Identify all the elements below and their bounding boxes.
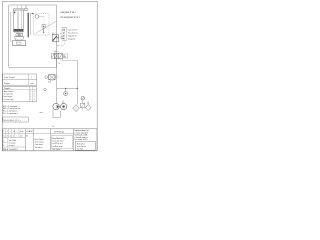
svg-text:1 3: 1 3 bbox=[58, 63, 61, 65]
filter diamond bbox=[73, 105, 79, 112]
svg-text:C rnar ruph: C rnar ruph bbox=[4, 98, 14, 101]
cylinder A1 piston bbox=[14, 29, 24, 31]
svg-text:1w r: 1w r bbox=[20, 136, 23, 138]
press ram bbox=[15, 37, 24, 41]
cylinder A1 barrel bbox=[13, 10, 23, 32]
svg-text:hm whs rw: hm whs rw bbox=[68, 33, 78, 35]
svg-text:W = 1 rqwrvwm t: W = 1 rqwrvwm t bbox=[3, 112, 18, 115]
svg-text:hwqy tw: hwqy tw bbox=[68, 37, 76, 40]
valve V1 spring bbox=[63, 54, 65, 58]
wire C right vertical bbox=[76, 60, 78, 104]
compressor circle bbox=[53, 103, 59, 109]
svg-text:WS-E 1 DuW41 1: WS-E 1 DuW41 1 bbox=[3, 149, 18, 151]
drain circle bbox=[44, 88, 47, 91]
svg-text:Bo n Pwlru t: Bo n Pwlru t bbox=[35, 138, 45, 141]
compressor base wire bbox=[53, 109, 60, 117]
rod coupling bbox=[16, 34, 23, 37]
svg-text:n w: n w bbox=[30, 83, 34, 85]
svg-text:4: 4 bbox=[7, 131, 8, 133]
svg-text:w rnwr t: w rnwr t bbox=[9, 144, 16, 147]
symbol strip box bbox=[3, 117, 28, 122]
workpiece box bbox=[13, 41, 26, 46]
junction bbox=[77, 88, 78, 89]
svg-text:4w2 1wr4w: 4w2 1wr4w bbox=[52, 149, 61, 151]
inset circle link bbox=[39, 15, 44, 17]
valve V1 left pilot bbox=[51, 54, 54, 58]
svg-text:OOA RC: OOA RC bbox=[26, 130, 33, 133]
svg-text:12k: 12k bbox=[48, 81, 51, 83]
lubricator diamond bbox=[85, 105, 91, 111]
wire D horizontal branch bbox=[57, 87, 78, 89]
valve V2 spring bbox=[55, 75, 56, 78]
wire from valve to cylinder port bbox=[25, 5, 27, 8]
title block h-lines bbox=[3, 132, 51, 134]
table 1 bbox=[3, 74, 37, 85]
inset inner valve sketch bbox=[42, 25, 46, 29]
gauge on branch D bbox=[65, 88, 67, 91]
svg-text:4 rwr wrw t: 4 rwr wrw t bbox=[35, 143, 44, 146]
svg-text:1: 1 bbox=[30, 99, 31, 101]
wire B valve to right bbox=[63, 59, 78, 61]
pilot circle right of S1 bbox=[61, 36, 63, 38]
svg-text:Brwd Anwhw 2 t: Brwd Anwhw 2 t bbox=[52, 137, 65, 140]
svg-text:w1: w1 bbox=[13, 131, 15, 133]
valve V2 roller bbox=[45, 76, 48, 79]
svg-text:W+O+W+1 | 1 1 +: W+O+W+1 | 1 1 + bbox=[4, 120, 22, 122]
machine right column bbox=[30, 13, 32, 35]
detail frame corner bbox=[57, 30, 65, 46]
svg-text:32: 32 bbox=[26, 135, 28, 137]
motor circle bbox=[60, 103, 66, 109]
valve V1 body bbox=[55, 53, 63, 58]
svg-text:Paqet: Paqet bbox=[4, 82, 10, 85]
svg-text:arm w 1h t: arm w 1h t bbox=[68, 29, 78, 32]
svg-text:Regeln: Regeln bbox=[4, 88, 10, 90]
svg-text:ewrywet 4 wr t: ewrywet 4 wr t bbox=[60, 11, 76, 14]
svg-text:1w rw4 w: 1w rw4 w bbox=[35, 147, 43, 149]
page border frame bbox=[2, 1, 97, 150]
inset detail box bbox=[34, 14, 50, 36]
table 2 bbox=[3, 86, 37, 101]
machine dark column bbox=[28, 13, 29, 37]
machine left column bbox=[10, 12, 12, 42]
svg-text:n: n bbox=[16, 131, 17, 133]
svg-text:r1: r1 bbox=[7, 136, 9, 138]
inset roller circle bbox=[35, 15, 39, 19]
cylinder A1 port block bbox=[14, 12, 15, 14]
title block right box bbox=[75, 142, 95, 151]
svg-text:DOPU25-A: DOPU25-A bbox=[54, 131, 64, 134]
inset leader diagonal bbox=[35, 21, 56, 34]
svg-text:1: 1 bbox=[34, 99, 35, 101]
svg-text:2: 2 bbox=[57, 45, 58, 47]
cylinder A1 bottom cap line bbox=[13, 31, 23, 33]
svg-text:Lrne 2 trpe t: Lrne 2 trpe t bbox=[4, 76, 16, 79]
pressure regulator bbox=[81, 103, 85, 108]
svg-text:Auxl Urour t: Auxl Urour t bbox=[4, 90, 14, 93]
gauge on regulator bbox=[81, 96, 85, 100]
svg-text:1w4rwt rwqrt: 1w4rwt rwqrt bbox=[52, 145, 63, 148]
svg-text:Ar wvwywet 4 rw t: Ar wvwywet 4 rw t bbox=[60, 16, 79, 19]
svg-text:4s wr: 4s wr bbox=[20, 131, 24, 133]
svg-text:4: 4 bbox=[3, 145, 4, 147]
title block small cells bbox=[5, 129, 7, 138]
cylinder A1 top port fitting bbox=[25, 8, 28, 10]
cylinder A1 piston rod lines bbox=[16, 12, 18, 29]
title block verticals bbox=[24, 129, 26, 151]
svg-text:1: 1 bbox=[58, 76, 59, 78]
valve V1 port ticks bbox=[55, 59, 57, 61]
legend box bbox=[60, 33, 61, 34]
wire main vertical A bbox=[56, 60, 58, 104]
cylinder A1 inner wall bbox=[21, 10, 23, 32]
situation frame bbox=[9, 5, 57, 68]
machine bench line bbox=[13, 45, 26, 47]
title block outer bbox=[3, 129, 97, 151]
node link to inset bbox=[29, 13, 33, 15]
cylinder A1 top cap bbox=[13, 9, 23, 10]
svg-text:rw 32 2y wr t: rw 32 2y wr t bbox=[52, 142, 63, 145]
svg-text:4: 4 bbox=[13, 136, 14, 138]
svg-text:mar: mar bbox=[39, 111, 43, 114]
svg-text:4w r: 4w r bbox=[52, 126, 55, 128]
svg-text:1rw 2w4: 1rw 2w4 bbox=[77, 148, 83, 150]
svg-text:4: 4 bbox=[31, 77, 32, 79]
svg-text:1: 1 bbox=[3, 131, 4, 133]
limit switch box S1 bbox=[52, 35, 58, 42]
svg-text:rrler brupr: rrler brupr bbox=[4, 95, 13, 98]
svg-text:1rw rwurt wr4 h: 1rw rwurt wr4 h bbox=[74, 138, 87, 141]
svg-text:hwyws th r: hwyws th r bbox=[68, 35, 78, 38]
svg-text:m4r 2: m4r 2 bbox=[54, 50, 59, 53]
svg-text:2y: 2y bbox=[64, 57, 66, 59]
